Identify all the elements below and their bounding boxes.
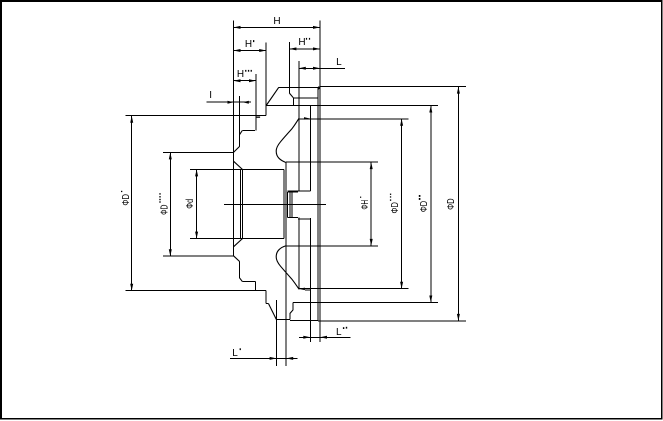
- dimension phiD' line: [131, 116, 133, 291]
- arrowheads dimension H: [234, 26, 241, 29]
- arrowheads dimension L'' (outside): [303, 336, 310, 339]
- svg-text:H: H: [237, 69, 244, 80]
- chamfer upper groove: [240, 131, 243, 135]
- svg-text:H: H: [245, 39, 252, 50]
- svg-text:Φd: Φd: [185, 199, 196, 209]
- threaded hole mouth circle: [286, 192, 288, 217]
- L' extension lines: [276, 300, 278, 366]
- phiD''' extension top + web top edge: [298, 118, 408, 120]
- boss right face lower + L'' ext x=310.3: [309, 218, 311, 342]
- phiD'''' extension bottom: [163, 255, 234, 257]
- dimension H'' line: [289, 48, 320, 50]
- dimension phiH' line: [370, 162, 372, 246]
- phiD extension bottom + flange bottom edge: [318, 320, 466, 322]
- thread relief circles: [289, 192, 291, 217]
- wire extension line x=266.2 (H' right): [265, 43, 267, 116]
- dimension phiD''' line: [401, 119, 403, 289]
- dimension phid line: [196, 169, 198, 238]
- rim notch face lower x=289.8: [289, 314, 291, 320]
- flange plate top cap: [318, 86, 320, 88]
- dimension L'' line: [299, 336, 350, 338]
- svg-text:ΦD: ΦD: [419, 201, 430, 212]
- phid extension + bore bottom: [190, 238, 284, 240]
- wire extension line x=233.5 (H/H'/H''' + hub left face): [233, 21, 235, 256]
- prime ticks of H-3prime: [245, 70, 246, 72]
- wire extension line x=298.3 (L left + boss left face): [298, 61, 300, 191]
- prime ticks of H-2prime: [306, 38, 307, 40]
- bore end face circle: [285, 162, 287, 366]
- arrowheads dimension I (outside): [228, 101, 234, 104]
- bottom web shoulder small segment: [266, 303, 269, 305]
- stray arrowhead near web bottom: [298, 288, 305, 291]
- dimension I line: [207, 101, 252, 103]
- arrowheads dimension phiD': [130, 116, 133, 123]
- svg-text:ΦD: ΦD: [446, 198, 457, 210]
- hub step face upper x=239.6: [239, 96, 241, 146]
- hub face x=266.2 lower: [265, 291, 267, 304]
- dimension H' line: [234, 50, 267, 52]
- hub end chamfer upper: [234, 146, 240, 152]
- svg-text:ΦD: ΦD: [159, 205, 170, 215]
- threaded hole top: [287, 191, 298, 193]
- arrowheads dimension phiH': [370, 162, 373, 169]
- svg-text:I: I: [209, 90, 212, 101]
- phiD extension top + flange top edge: [320, 86, 466, 88]
- dimension phiD'''' line: [169, 152, 171, 256]
- threaded hole bottom: [287, 216, 298, 218]
- svg-text:ΦD: ΦD: [121, 194, 132, 206]
- svg-text:L: L: [336, 57, 342, 68]
- phiD''' extension bottom + step: [298, 288, 408, 290]
- phiD'''' extension top: [163, 151, 234, 153]
- prime ticks of phiD-3prime: [390, 194, 391, 195]
- dimension L line: [299, 67, 345, 69]
- svg-text:H: H: [273, 16, 280, 27]
- arrowheads dimension phiD'''': [169, 152, 172, 159]
- arrowheads dimension H'': [289, 47, 296, 50]
- arrowheads dimension phiD''': [400, 119, 403, 126]
- hub end chamfer lower: [234, 256, 240, 262]
- wire extension line x=256 (H''' right): [255, 74, 257, 131]
- phiD' extension bottom: [125, 290, 266, 292]
- svg-text:H: H: [298, 37, 305, 48]
- arrowheads dimension H': [234, 49, 241, 52]
- phiD'' extension bottom: [293, 302, 438, 304]
- boss right face upper x=310.3: [309, 106, 311, 192]
- web S-curve lower: [276, 246, 299, 289]
- prime tick of phiD-prime: [121, 191, 122, 192]
- phiD' extension top: [125, 115, 266, 117]
- hub groove land upper: [242, 130, 255, 132]
- svg-text:ΦD: ΦD: [390, 202, 401, 213]
- hub face upper x=255.3 (part of ext overlap): [254, 282, 256, 291]
- centerline: [224, 203, 326, 205]
- dimension H''' line: [234, 80, 257, 82]
- chamfer lower groove: [240, 278, 243, 282]
- arrowheads dimension phid: [195, 169, 198, 176]
- web S-curve upper: [276, 118, 299, 162]
- prime ticks of L-2prime: [343, 327, 344, 329]
- stray arrowhead near web top: [304, 117, 310, 120]
- rim cylinder upper y=97.8: [293, 97, 318, 99]
- arrowheads dimension H''': [234, 79, 241, 82]
- arrowheads dimension L: [299, 67, 306, 70]
- prime tick of H-prime: [253, 40, 254, 42]
- prime tick of L-prime: [240, 348, 241, 350]
- flange rim face x=293.4 upper: [292, 98, 294, 106]
- phiH' extension bottom: [286, 245, 378, 247]
- dimension L' line: [230, 357, 297, 359]
- phiD'' extension top + web shoulder: [266, 105, 438, 107]
- dimension phiD'' line: [430, 106, 432, 303]
- bore chamfer circles: [240, 169, 242, 238]
- svg-text:ΦH: ΦH: [360, 200, 371, 210]
- dimension H line: [234, 26, 321, 28]
- wire extension line x=320 (H right / flange right face): [319, 21, 321, 343]
- hub groove land lower: [242, 281, 255, 283]
- arrowheads dimension L' (outside): [270, 357, 277, 360]
- rim notch face upper x=289.3: [288, 87, 290, 93]
- bore mouth chamfer lower: [234, 239, 243, 247]
- groove lip bottom ledge y=319.7: [277, 319, 290, 321]
- arrowheads dimension phiD: [457, 87, 460, 94]
- prime tick of phiH-prime: [360, 197, 361, 198]
- thread step line upper: [288, 190, 311, 192]
- bore end circle: [283, 169, 285, 238]
- rim top cylinder y=87.4: [279, 86, 320, 88]
- svg-text:L: L: [232, 348, 238, 359]
- boss cone left upper: [266, 87, 279, 105]
- prime ticks of phiD-4prime: [159, 193, 160, 194]
- hub step face lower x=239.6: [239, 262, 241, 278]
- phid extension + bore top: [190, 168, 284, 170]
- prime ticks of phiD-2prime: [419, 195, 421, 197]
- wire extension line x=289.4 (H'' left): [288, 42, 290, 87]
- rim bottom cylinder y=320.5: [290, 320, 318, 322]
- bore mouth chamfer upper: [234, 161, 243, 169]
- flange plate left face: [317, 87, 319, 321]
- phiH' extension top: [286, 161, 378, 163]
- thread step line lower: [298, 218, 310, 220]
- flange rim face x=293.1 lower: [292, 303, 294, 310]
- stray tick at hub shoulder: [256, 117, 260, 118]
- rim notch chamfer lower: [290, 310, 293, 314]
- flange corner tick: [318, 88, 320, 90]
- arrowheads dimension phiD'': [429, 106, 432, 113]
- svg-text:L: L: [336, 327, 342, 338]
- rim notch chamfer upper: [289, 93, 293, 98]
- boss cone left lower: [269, 304, 277, 320]
- dimension phiD line: [457, 87, 459, 321]
